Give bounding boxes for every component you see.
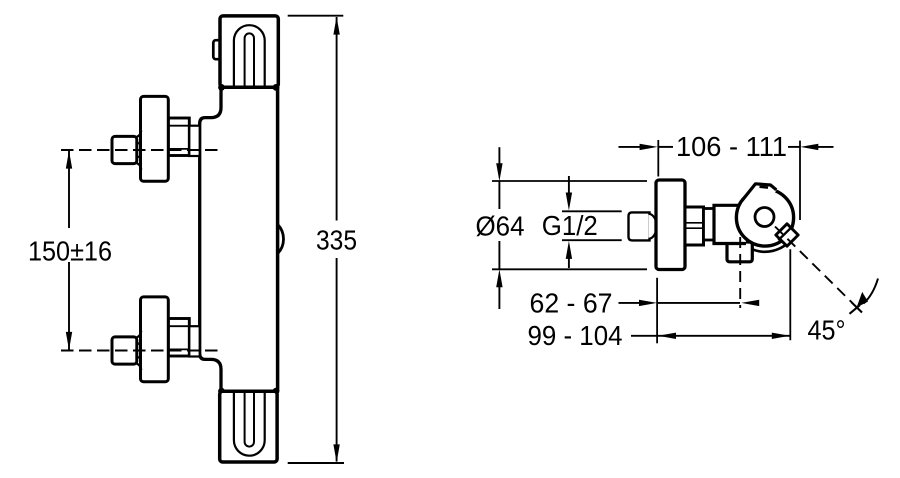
dia 64 mid lower segment <box>498 241 500 269</box>
top inlet cone flare upper <box>137 131 141 137</box>
bottom handle U-inset outer <box>234 391 265 455</box>
G1/2 stub dome nose <box>649 214 657 239</box>
top inlet wall flange <box>141 96 169 181</box>
angle arc arrowhead <box>857 292 868 308</box>
svg-text:G1/2: G1/2 <box>542 210 598 241</box>
top inlet olive nose <box>135 143 141 158</box>
dim 62-67 left arrow <box>639 300 657 306</box>
junction dot bottom-left <box>218 388 225 395</box>
dim 106-111 left short segment <box>658 146 673 148</box>
G1/2 bottom extension line <box>562 239 622 241</box>
dim 62-67 leader <box>619 302 641 304</box>
ext line side left lower <box>656 278 658 344</box>
dimension 150±16 line upper segment <box>68 151 70 228</box>
junction dot bottom-right <box>273 388 280 395</box>
dimension 150±16 arrow down <box>66 332 72 350</box>
swing line solid end segment <box>852 302 863 312</box>
angle arc arrow curve <box>864 279 879 304</box>
handle cap small circle <box>755 208 774 227</box>
valve body <box>714 205 746 243</box>
dia 64 bottom extension line <box>492 268 647 270</box>
dim 106-111 left arrow <box>640 144 658 150</box>
bottom inlet hex nut <box>168 319 189 357</box>
dimension 150±16 line lower segment <box>68 262 70 350</box>
dia 64 bottom arrow <box>496 269 502 287</box>
handle top tab tick <box>760 186 769 189</box>
dim 106-111 right tail <box>817 146 834 148</box>
bottom inlet centerline <box>61 350 220 352</box>
bottom handle U-inset inner <box>245 391 254 446</box>
side adapter ring <box>704 209 716 241</box>
G1/2 bottom tail <box>568 258 570 268</box>
side wall flange <box>656 180 685 270</box>
G1/2 bottom arrow <box>566 241 572 259</box>
dimension 335 top extension line <box>288 15 344 17</box>
dimension 335 line upper segment <box>336 17 338 221</box>
bottom inlet cone flare lower <box>137 364 141 370</box>
dim 106-111 right arrow <box>800 144 818 150</box>
dim 99-104 left arrow <box>658 333 676 339</box>
junction dot top-right <box>273 84 280 91</box>
handle skirt band <box>751 235 792 252</box>
dia 64 bottom tail <box>498 286 500 309</box>
top handle U-inset inner <box>245 33 254 87</box>
diverter bump on body right edge <box>278 224 284 253</box>
bottom inlet hex nut facet line B <box>168 348 189 350</box>
dimension 335 line lower segment <box>336 258 338 462</box>
svg-text:335: 335 <box>316 224 357 255</box>
dim 62-67 span line <box>657 302 740 304</box>
junction dot top-left <box>218 84 225 91</box>
handle top tab outline <box>740 184 776 204</box>
dimension 335 arrow down <box>333 444 339 462</box>
top handle body <box>220 16 278 87</box>
dimension 335 arrow up <box>333 17 339 35</box>
handle large circle <box>736 189 793 246</box>
ext line side right lower (99-104) <box>789 249 791 340</box>
dia 64 top arrow <box>496 163 502 181</box>
G1/2 top tail <box>568 176 570 194</box>
svg-text:Ø64: Ø64 <box>476 211 525 242</box>
top handle U-inset outer <box>234 25 265 87</box>
bottom inlet square nut <box>112 337 137 364</box>
svg-text:99 - 104: 99 - 104 <box>528 320 623 351</box>
svg-text:106 - 111: 106 - 111 <box>676 131 787 162</box>
dimension 335 bottom extension line <box>288 462 344 464</box>
lever tab 45deg <box>776 224 798 246</box>
dim 99-104 span line <box>658 335 790 337</box>
top inlet threaded stub <box>189 126 199 156</box>
G1/2 top arrow <box>566 193 572 211</box>
G1/2 top extension line <box>562 210 622 212</box>
G1/2 stub <box>629 212 650 240</box>
dia 64 top tail <box>498 147 500 164</box>
faucet body right edge <box>276 87 280 391</box>
top inlet hex nut facet line A <box>168 125 189 127</box>
dim 106-111 left tail <box>619 146 641 148</box>
bottom inlet olive nose <box>135 343 141 358</box>
bottom inlet cone flare upper <box>137 331 141 337</box>
side hex nut <box>685 207 704 245</box>
svg-text:62 - 67: 62 - 67 <box>530 288 613 319</box>
dim 62-67 right arrow <box>741 300 759 306</box>
top inlet centerline <box>61 149 220 151</box>
svg-text:150±16: 150±16 <box>28 235 112 266</box>
side hex nut facet line B <box>685 227 704 229</box>
top inlet hex nut <box>168 118 189 156</box>
bottom inlet threaded stub <box>189 326 199 356</box>
ext line 106-111 left <box>657 140 659 177</box>
45deg dashed swing line <box>775 227 852 303</box>
top inlet cone flare lower <box>137 163 141 169</box>
bottom inlet wall flange <box>141 297 169 382</box>
handle top tab erase patch <box>740 184 776 205</box>
swing line end tick <box>850 305 860 314</box>
dim 99-104 leader <box>631 335 658 337</box>
top inlet square nut <box>112 136 137 163</box>
dia 64 mid upper segment <box>498 181 500 209</box>
side hex nut facet line A <box>685 222 704 224</box>
dia 64 top extension line <box>492 180 647 182</box>
dimension 150±16 arrow up <box>66 151 72 169</box>
outlet dashed centerline <box>739 237 741 308</box>
dim 99-104 right arrow <box>772 333 790 339</box>
ext line 106-111 right <box>799 141 801 220</box>
shower outlet connector <box>727 242 752 262</box>
dim 106-111 right short segment <box>788 146 800 148</box>
top inlet hex nut facet line B <box>168 148 189 150</box>
svg-text:45°: 45° <box>808 314 846 345</box>
bottom inlet hex nut facet line A <box>168 325 189 327</box>
lever tab inner line <box>778 227 792 240</box>
faucet body left edge with neck curves <box>200 87 221 391</box>
bottom handle body <box>220 391 277 462</box>
handle button tab (top handle, left side) <box>213 40 221 59</box>
